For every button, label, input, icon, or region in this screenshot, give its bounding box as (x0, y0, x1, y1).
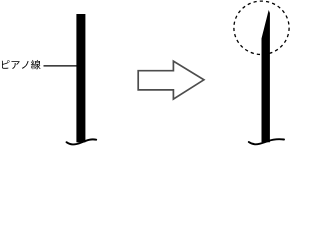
label "ピアノ線" (2, 60, 41, 69)
leader line from label to wire (44, 65, 78, 67)
sharpened piano wire, right bar with pointed tip (262, 10, 270, 142)
break wave at bottom of right wire (249, 139, 284, 144)
block arrow (transform indicator) (138, 61, 204, 99)
dashed circle highlighting sharpened tip (234, 1, 289, 54)
piano wire (before sharpening), left bar (76, 14, 85, 142)
break wave at bottom of left wire (67, 139, 97, 144)
